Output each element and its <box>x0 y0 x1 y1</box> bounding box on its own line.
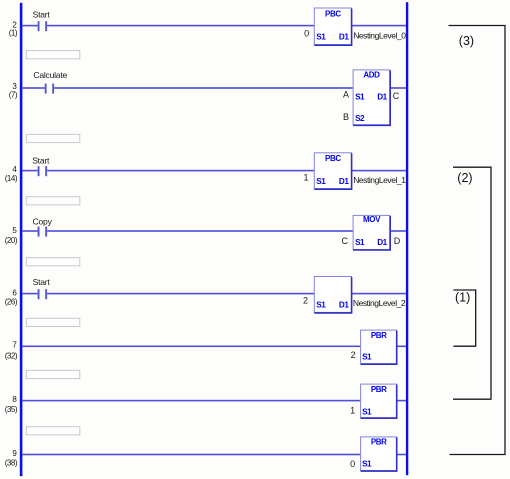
svg-text:NestingLevel_2: NestingLevel_2 <box>353 298 406 308</box>
svg-text:PBC: PBC <box>325 9 341 18</box>
svg-text:PBR: PBR <box>371 385 387 394</box>
svg-text:D1: D1 <box>339 33 349 42</box>
svg-text:S1: S1 <box>362 352 372 361</box>
svg-text:(7): (7) <box>9 90 18 99</box>
svg-text:NestingLevel_0: NestingLevel_0 <box>353 31 406 41</box>
svg-text:S1: S1 <box>355 238 365 247</box>
svg-text:D1: D1 <box>339 177 349 186</box>
svg-text:2: 2 <box>303 296 308 306</box>
svg-text:Start: Start <box>32 156 50 166</box>
svg-text:(35): (35) <box>5 405 18 414</box>
svg-text:S1: S1 <box>362 459 372 468</box>
svg-text:(2): (2) <box>457 171 472 185</box>
svg-text:NestingLevel_1: NestingLevel_1 <box>353 175 406 185</box>
svg-text:S1: S1 <box>316 177 326 186</box>
svg-text:S2: S2 <box>355 114 365 123</box>
svg-text:A: A <box>343 90 349 100</box>
svg-text:(26): (26) <box>5 297 18 306</box>
svg-text:0: 0 <box>304 28 309 38</box>
svg-text:C: C <box>393 91 400 101</box>
svg-text:(1): (1) <box>9 28 18 37</box>
svg-text:(38): (38) <box>5 458 18 467</box>
svg-text:PBC: PBC <box>325 154 341 163</box>
svg-text:Start: Start <box>33 277 51 287</box>
svg-text:ADD: ADD <box>363 70 380 79</box>
svg-text:0: 0 <box>350 459 355 469</box>
svg-text:C: C <box>341 236 348 246</box>
svg-text:D1: D1 <box>339 301 349 310</box>
svg-text:Start: Start <box>33 10 51 20</box>
svg-text:S1: S1 <box>316 301 326 310</box>
svg-text:(3): (3) <box>459 34 474 48</box>
svg-text:PBR: PBR <box>371 331 387 340</box>
svg-text:B: B <box>343 112 349 122</box>
svg-text:S1: S1 <box>362 407 372 416</box>
svg-text:S1: S1 <box>316 33 326 42</box>
svg-text:2: 2 <box>351 350 356 360</box>
svg-text:S1: S1 <box>355 92 365 101</box>
svg-text:(14): (14) <box>5 174 18 183</box>
svg-text:MOV: MOV <box>363 215 381 224</box>
svg-text:D1: D1 <box>377 92 387 101</box>
svg-text:1: 1 <box>303 172 308 182</box>
svg-text:(20): (20) <box>5 236 18 245</box>
svg-text:D1: D1 <box>377 238 387 247</box>
svg-text:(32): (32) <box>5 352 18 361</box>
svg-text:Copy: Copy <box>33 217 53 227</box>
svg-text:PBR: PBR <box>371 438 387 447</box>
svg-text:D: D <box>394 236 401 246</box>
svg-text:Calculate: Calculate <box>33 70 67 80</box>
svg-text:(1): (1) <box>455 291 470 305</box>
svg-text:1: 1 <box>350 405 355 415</box>
